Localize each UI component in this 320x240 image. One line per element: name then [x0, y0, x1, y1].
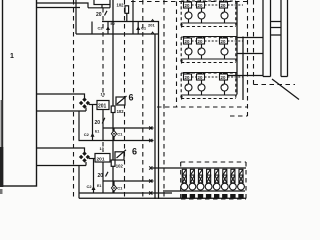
svg-text:201: 201 — [98, 104, 107, 110]
svg-text:20: 20 — [96, 12, 102, 18]
svg-text:6: 6 — [129, 93, 134, 103]
svg-text:6: 6 — [132, 147, 137, 157]
svg-text:102: 102 — [117, 2, 125, 7]
svg-text:E2: E2 — [111, 22, 115, 26]
svg-text:C2: C2 — [87, 184, 93, 189]
svg-text:C2: C2 — [98, 25, 104, 30]
svg-text:10: 10 — [100, 146, 105, 151]
svg-text:102: 102 — [117, 109, 125, 114]
svg-text:20: 20 — [98, 173, 104, 179]
svg-text:201: 201 — [97, 157, 105, 163]
svg-text:E1: E1 — [97, 184, 101, 188]
svg-text:201: 201 — [148, 23, 155, 28]
svg-text:20: 20 — [95, 120, 101, 126]
svg-text:E1: E1 — [95, 130, 99, 134]
svg-text:C1: C1 — [141, 25, 147, 30]
svg-text:1: 1 — [10, 53, 14, 60]
svg-text:C1: C1 — [117, 185, 123, 190]
svg-text:C2: C2 — [84, 132, 90, 137]
svg-text:C1: C1 — [117, 132, 123, 137]
svg-text:102: 102 — [116, 163, 124, 168]
svg-text:10: 10 — [101, 92, 106, 97]
